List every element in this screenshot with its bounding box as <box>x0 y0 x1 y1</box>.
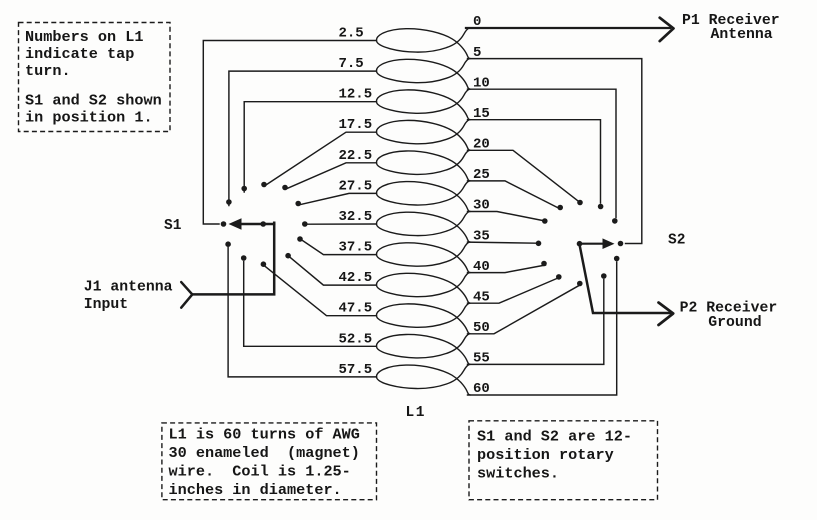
rotary switch S1 wiper arm (shaft) <box>236 223 274 226</box>
coil L1 turn 5 <box>376 150 470 181</box>
connector P2 arrowhead <box>659 303 674 326</box>
wire: coil tap 32.5 to S1 contact <box>308 223 377 225</box>
note box: L1 construction details (dashed) <box>162 423 377 500</box>
svg-text:L1 is 60 turns of AWG30 enamel: L1 is 60 turns of AWG30 enameled (magnet… <box>169 426 360 500</box>
wire: coil tap 0 to P1 (bold) <box>466 27 670 29</box>
svg-text:S1: S1 <box>164 218 182 234</box>
wire: coil tap 15 to S2 contact <box>468 120 601 203</box>
svg-text:12.5: 12.5 <box>339 87 373 103</box>
svg-text:15: 15 <box>473 106 490 122</box>
svg-text:35: 35 <box>473 228 490 244</box>
svg-text:Antenna: Antenna <box>711 27 773 43</box>
rotary switch S1 wiper arrowhead <box>229 218 242 230</box>
svg-text:25: 25 <box>473 167 490 183</box>
coil L1 turn 4 <box>376 120 470 151</box>
wire: coil tap 40 to S2 contact <box>468 265 546 273</box>
connector P1 arrowhead <box>660 18 674 41</box>
wire: coil tap 52.5 to S1 contact <box>244 262 377 347</box>
rotary switch S1 contacts <box>221 221 227 227</box>
wire: coil tap 7.5 to S1 contact <box>229 71 377 205</box>
svg-text:32.5: 32.5 <box>339 209 373 225</box>
coil L1 turn 11 <box>376 334 470 365</box>
connector J1 symbol (open chevron) <box>181 282 192 308</box>
svg-text:L1: L1 <box>406 405 426 421</box>
svg-text:Input: Input <box>84 297 128 313</box>
rotary switch S2 wiper arm (shaft) <box>580 243 607 245</box>
wire: coil tap 60 to S2 contact <box>468 262 617 395</box>
rotary switch S2 wiper arrowhead <box>603 238 615 249</box>
svg-text:20: 20 <box>473 137 490 153</box>
wire: coil tap 17.5 to S1 contact <box>267 132 377 184</box>
coil L1 turn 9 <box>376 273 470 304</box>
coil L1 turn 12 <box>376 364 470 395</box>
svg-text:57.5: 57.5 <box>339 362 373 378</box>
wire: S2 common to P2 (bold) <box>580 245 671 314</box>
svg-text:J1 antenna: J1 antenna <box>84 280 173 296</box>
wire: coil tap 22.5 to S1 contact <box>287 163 377 189</box>
svg-text:47.5: 47.5 <box>339 301 373 317</box>
svg-text:27.5: 27.5 <box>339 178 373 194</box>
coil L1 turn 8 <box>376 242 470 273</box>
wire: coil tap 35 to S2 contact <box>468 242 537 243</box>
svg-text:7.5: 7.5 <box>339 56 364 72</box>
coil L1 turn 3 <box>376 89 470 120</box>
svg-text:55: 55 <box>473 351 490 367</box>
svg-text:50: 50 <box>473 320 490 336</box>
svg-text:60: 60 <box>473 381 490 397</box>
wire: coil tap 30 to S2 contact <box>468 212 543 221</box>
note box: S1 and S2 rotary switch description (dashed) <box>469 421 658 500</box>
note box: tap numbering and switch position (dashed) <box>19 23 171 132</box>
coil L1 turn 2 <box>376 59 470 90</box>
svg-text:22.5: 22.5 <box>339 148 373 164</box>
coil L1 turn 1 <box>376 28 470 59</box>
wire: coil tap 25 to S2 contact <box>468 181 559 208</box>
svg-text:45: 45 <box>473 289 490 305</box>
svg-text:30: 30 <box>473 198 490 214</box>
wire: coil tap 12.5 to S1 contact <box>244 102 376 192</box>
wire: coil tap 5 to S2 contact <box>468 59 642 244</box>
rotary switch S1 wiper pivot <box>260 221 266 227</box>
wire: coil tap 55 to S2 contact <box>468 280 604 365</box>
coil L1 turn 10 <box>376 303 470 334</box>
svg-text:52.5: 52.5 <box>339 331 373 347</box>
wire: coil tap 47.5 to S1 contact <box>265 266 377 315</box>
svg-text:Ground: Ground <box>708 315 761 331</box>
wire: coil tap 50 to S2 contact <box>468 286 579 334</box>
wire: coil tap 20 to S2 contact <box>468 150 581 202</box>
svg-text:S2: S2 <box>668 233 685 249</box>
coil L1 turn 6 <box>376 181 470 212</box>
svg-text:0: 0 <box>473 14 481 30</box>
wire: coil tap 42.5 to S1 contact <box>290 257 377 285</box>
svg-text:10: 10 <box>473 75 490 91</box>
svg-text:2.5: 2.5 <box>339 26 364 42</box>
svg-text:17.5: 17.5 <box>339 117 373 133</box>
wire: coil tap 2.5 to S1 contact <box>203 41 376 225</box>
wire: coil tap 45 to S2 contact <box>468 278 559 303</box>
svg-text:5: 5 <box>473 45 481 61</box>
rotary switch S2 contacts <box>618 241 624 247</box>
coil L1 turn 7 <box>376 212 470 243</box>
wire: coil tap 10 to S2 contact <box>468 89 617 217</box>
svg-text:37.5: 37.5 <box>339 240 373 256</box>
wire: coil tap 27.5 to S1 contact <box>301 193 377 204</box>
rotary switch S2 wiper pivot <box>577 241 583 247</box>
wire: S1 common to J1 (bold) <box>192 223 274 295</box>
svg-text:40: 40 <box>473 259 490 275</box>
wire: coil tap 37.5 to S1 contact <box>302 240 377 255</box>
wire: coil tap 57.5 to S1 contact <box>228 248 376 377</box>
svg-text:42.5: 42.5 <box>339 270 373 286</box>
